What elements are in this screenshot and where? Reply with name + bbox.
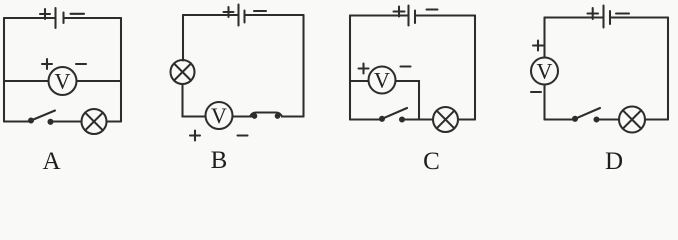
wire A top-left (4, 17, 54, 19)
switch S2 (B, closed) (250, 113, 282, 118)
wire D right vertical (667, 18, 669, 120)
circuit A frame wires (4, 18, 121, 122)
wire A middle-left (4, 80, 49, 82)
wire C bottom-left (350, 118, 382, 120)
lamp L3 (C) (433, 107, 458, 132)
voltmeter V3 (C) (359, 64, 411, 94)
svg-text:V: V (211, 103, 227, 128)
wire D top-left (545, 16, 604, 18)
wire C top-left (350, 14, 407, 16)
battery D (588, 6, 630, 28)
wire D bottom-right (645, 118, 668, 120)
svg-text:D: D (605, 148, 623, 175)
wire C voltmeter stub left (350, 80, 369, 82)
svg-text:C: C (423, 148, 440, 175)
voltmeter V2 (B) (190, 102, 248, 141)
svg-text:V: V (537, 59, 553, 84)
switch S4 (D, open) (573, 108, 600, 122)
wire A bottom-left (4, 120, 31, 122)
wire D left vertical upper (543, 18, 545, 58)
wire D top-right (611, 16, 669, 18)
wire B left vertical upper (182, 15, 184, 61)
voltmeter V4 (D) (531, 41, 558, 93)
wire A top-right (64, 17, 121, 19)
svg-text:V: V (374, 68, 390, 93)
wire B right vertical (302, 15, 304, 117)
wire C right vertical (474, 16, 476, 120)
wire C bottom-mid (402, 118, 433, 120)
wire B bottom mid (233, 115, 253, 117)
voltmeter V1 (A) (42, 59, 86, 95)
wire C top-right (416, 14, 476, 16)
wire A bottom-right (107, 120, 122, 122)
circuit C frame wires (350, 16, 475, 120)
wire A left vertical (3, 18, 5, 122)
wire C voltmeter to junction (396, 81, 420, 120)
wire D left vertical lower (543, 85, 545, 120)
switch S3 (C, open) (380, 108, 407, 122)
lamp L1 (A) (82, 109, 107, 134)
wire A bottom-mid (51, 120, 82, 122)
svg-text:B: B (211, 147, 228, 174)
wire D bottom-left (545, 118, 576, 120)
wire A middle-right (77, 80, 122, 82)
battery B (224, 5, 267, 26)
battery A (40, 8, 84, 28)
wire B top-left (183, 14, 238, 16)
lamp L2 (B) (171, 60, 195, 84)
svg-text:V: V (55, 69, 71, 94)
lamp L4 (D) (619, 107, 645, 133)
wire D bottom-mid (597, 118, 620, 120)
wire B left vertical lower (183, 84, 206, 117)
circuit B frame wires (183, 15, 304, 117)
wire C bottom-right (458, 118, 475, 120)
wire A right vertical (120, 18, 122, 122)
wire C left vertical (349, 16, 351, 120)
wire B top-right (245, 14, 304, 16)
battery C (394, 6, 438, 26)
circuit D frame wires (545, 18, 669, 120)
svg-text:A: A (42, 148, 60, 175)
switch S1 (A, open) (29, 111, 55, 124)
wire B bottom right (282, 115, 304, 117)
